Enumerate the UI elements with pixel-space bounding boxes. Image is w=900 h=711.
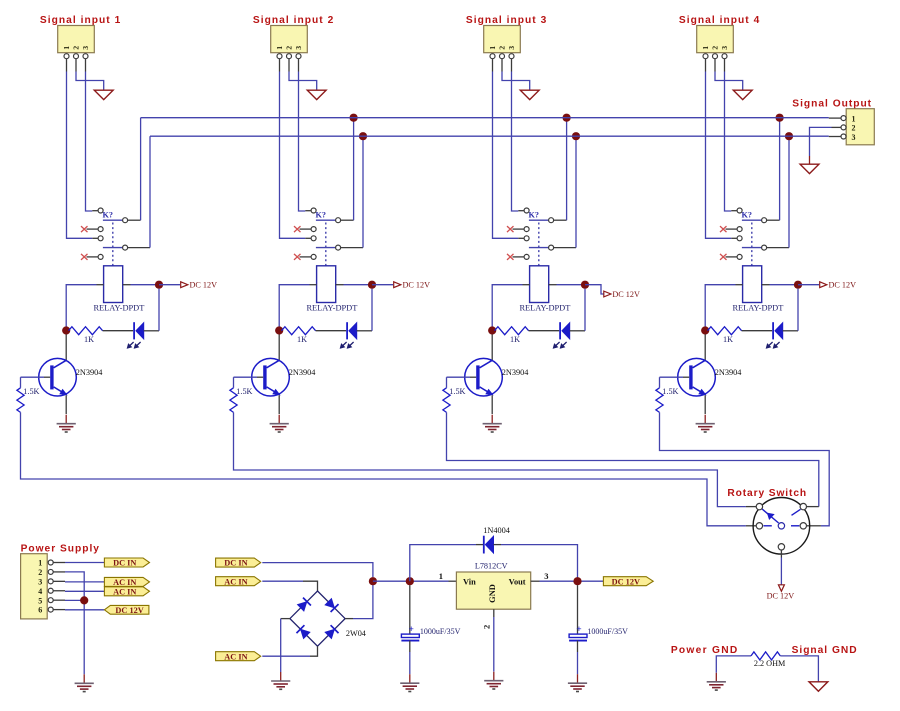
- wire coil right to DC 12V node: [762, 284, 798, 286]
- ground (emitter Q4): [704, 415, 706, 424]
- connector J5 pin circles: [841, 116, 846, 139]
- svg-text:2N3904: 2N3904: [76, 368, 104, 377]
- wire coil left to transistor collector node: [279, 285, 316, 331]
- wire resistor to signal gnd: [780, 656, 818, 682]
- svg-text:DC 12V: DC 12V: [190, 280, 218, 289]
- wire pin2 to ground rail: [65, 572, 84, 674]
- wire pin6 to DC 12V flag: [65, 609, 104, 611]
- wire J2 pin2 to signal ground: [289, 72, 317, 91]
- connector J6 (power supply): [21, 554, 48, 619]
- relay K3 pole A contact: [524, 208, 529, 213]
- wire output pin 2 to signal ground: [810, 127, 841, 164]
- wire J2 pin stubs: [280, 59, 299, 72]
- ground (emitter Q3): [491, 415, 493, 424]
- wire throw A to bus A riser: [554, 219, 567, 221]
- wire J3 pin2 to signal ground: [502, 72, 530, 91]
- ground (emitter Q1): [65, 415, 67, 424]
- relay K4 throw B arm: [742, 247, 762, 249]
- relay K3 throw A arm: [529, 219, 549, 221]
- wire collector (channel 4): [704, 334, 706, 360]
- relay K4 throw A arm: [742, 219, 762, 221]
- svg-text:GND: GND: [488, 584, 497, 603]
- wire J1 pin1 to relay pole B: [67, 72, 93, 239]
- capacitor C2 1000uF/35V: [569, 625, 587, 640]
- svg-text:1: 1: [439, 571, 443, 581]
- relay K2 throw A arm: [316, 219, 336, 221]
- svg-text:1K: 1K: [84, 335, 94, 344]
- resistor R2a 1K: [282, 327, 316, 344]
- ground (bridge minus): [280, 672, 282, 681]
- power flag DC 12V (channel 3): [585, 285, 640, 299]
- resistor R1a 1K: [69, 327, 103, 344]
- power flag DC 12V (channel 2): [372, 280, 430, 289]
- signal ground (output): [800, 164, 819, 173]
- resistor R4a 1K: [708, 327, 742, 344]
- rotary switch right contact: [800, 523, 806, 529]
- junction coil/DC12V/LED node (channel 2): [368, 281, 376, 289]
- svg-text:2: 2: [498, 46, 507, 50]
- connector J5 (signal output): [846, 109, 874, 145]
- svg-text:Vout: Vout: [509, 577, 526, 586]
- wire emitter to ground (channel 3): [491, 395, 493, 414]
- wire pin4 to AC IN flag: [65, 590, 104, 592]
- wire J4 pin2 to signal ground: [715, 72, 743, 91]
- svg-text:K?: K?: [529, 210, 539, 219]
- wire riser throw B to bus B (channel 1): [149, 136, 151, 247]
- ground (regulator): [493, 672, 495, 681]
- relay K1 pole A contact: [98, 208, 103, 213]
- wire 1K to LED cathode: [316, 330, 347, 332]
- wire 1K to LED cathode: [742, 330, 773, 332]
- svg-text:1N4004: 1N4004: [483, 526, 511, 535]
- relay K1 coil RELAY-DPDT: [104, 266, 123, 303]
- relay K3 coil RELAY-DPDT: [530, 266, 549, 303]
- wire throw B to bus B riser: [554, 247, 576, 249]
- relay K4 pole A contact: [737, 208, 742, 213]
- svg-text:1: 1: [275, 46, 284, 50]
- relay K4 throw B contact: [762, 245, 767, 250]
- wire J1 pin3 to relay pole A: [86, 72, 93, 212]
- svg-text:1.5K: 1.5K: [236, 387, 252, 396]
- svg-text:Rotary Switch: Rotary Switch: [727, 488, 807, 499]
- relay K2 unused contact NC1 with X: [294, 226, 316, 232]
- wire emitter to ground (channel 4): [704, 395, 706, 414]
- relay K2 coil RELAY-DPDT: [317, 266, 336, 303]
- relay K3 throw A contact: [549, 218, 554, 223]
- svg-text:1000uF/35V: 1000uF/35V: [587, 627, 628, 636]
- svg-text:Power GND: Power GND: [671, 645, 739, 656]
- svg-text:AC IN: AC IN: [113, 587, 136, 596]
- connector J2 (signal input 2): [271, 26, 308, 53]
- power flag DC 12V (channel 1): [159, 280, 217, 289]
- rotary switch SW1 body: [753, 498, 810, 555]
- diode D5 1N4004: [483, 536, 494, 554]
- wire J3 pin3 to relay pole A: [512, 72, 519, 212]
- rotary switch center contact: [778, 523, 784, 529]
- svg-text:3: 3: [507, 46, 516, 50]
- wire coil right to DC 12V node: [336, 284, 372, 286]
- svg-text:RELAY-DPDT: RELAY-DPDT: [519, 304, 570, 313]
- resistor R2b 1.5K: [230, 377, 253, 412]
- relay K2 throw B arm: [316, 247, 336, 249]
- junction base-resistor node (channel 4): [701, 326, 709, 334]
- net flag DC IN (pin1): [104, 558, 149, 567]
- connector J1 pin circles: [64, 54, 88, 59]
- wire bus B (output 3 net): [150, 135, 829, 137]
- rotary switch top-right contact: [800, 503, 806, 509]
- wire J3 pin stubs: [493, 59, 512, 72]
- svg-text:1K: 1K: [723, 335, 733, 344]
- transistor Q4 2N3904: [678, 358, 716, 396]
- wire bypass diode to Vout node: [494, 545, 578, 582]
- ground (power connector): [83, 674, 85, 683]
- svg-text:AC IN: AC IN: [224, 577, 247, 586]
- svg-text:3: 3: [544, 571, 548, 581]
- wire collector (channel 2): [278, 334, 280, 360]
- wire rotary common to DC 12V: [780, 550, 782, 585]
- connector J4 (signal input 4): [697, 26, 734, 53]
- svg-text:5: 5: [38, 596, 42, 605]
- relay K1 pole B contact: [98, 236, 103, 241]
- svg-text:K?: K?: [742, 210, 752, 219]
- svg-text:L7812CV: L7812CV: [475, 561, 508, 570]
- wire J1 pin2 to signal ground: [76, 72, 104, 91]
- junction bus B channel 2: [359, 132, 367, 140]
- junction base-resistor node (channel 2): [275, 326, 283, 334]
- junction bus B channel 4: [785, 132, 793, 140]
- wire J2 pin3 to relay pole A: [299, 72, 306, 212]
- relay K2 pole B contact: [311, 236, 316, 241]
- wire coil right to DC 12V node: [549, 284, 585, 286]
- LED D2: [340, 322, 357, 348]
- svg-text:2: 2: [711, 46, 720, 50]
- wire throw B to bus B riser: [767, 247, 789, 249]
- wire throw A to bus A riser: [341, 219, 354, 221]
- svg-text:1K: 1K: [297, 335, 307, 344]
- junction coil/DC12V/LED node (channel 4): [794, 281, 802, 289]
- svg-text:DC 12V: DC 12V: [829, 280, 857, 289]
- wire collector (channel 1): [65, 334, 67, 360]
- svg-text:Signal Output: Signal Output: [792, 98, 872, 109]
- rotary switch top-left contact: [756, 503, 762, 509]
- wire C1 to ground: [409, 641, 411, 675]
- svg-text:1: 1: [852, 114, 856, 123]
- resistor R3a 1K: [495, 327, 529, 344]
- junction base-resistor node (channel 1): [62, 326, 70, 334]
- wire Vin rail: [373, 580, 449, 582]
- junction pin5/ground rail: [80, 596, 88, 604]
- svg-text:K?: K?: [103, 210, 113, 219]
- net flag DC 12V (regulator output): [603, 577, 653, 586]
- svg-text:Signal input 3: Signal input 3: [466, 15, 548, 26]
- svg-text:DC 12V: DC 12V: [767, 592, 795, 601]
- svg-text:Signal input 4: Signal input 4: [679, 15, 761, 26]
- connector J4 pin circles: [703, 54, 727, 59]
- rotary switch wiper arm: [762, 509, 779, 523]
- rotary switch left contact: [756, 523, 762, 529]
- svg-text:AC IN: AC IN: [224, 652, 247, 661]
- junction bus B channel 3: [572, 132, 580, 140]
- transistor Q3 2N3904: [465, 358, 503, 396]
- rotary switch position stub top-right: [792, 509, 801, 515]
- wire C2 to ground: [577, 641, 579, 675]
- connector J3 pin circles: [490, 54, 514, 59]
- wire pin1 to DC IN flag: [65, 562, 104, 564]
- LED D1: [127, 322, 144, 348]
- relay K1 actuator dashed link: [112, 223, 114, 266]
- wire channel 2 base bus to rotary top-left contact: [234, 412, 746, 506]
- wire LED anode up to DC12V node: [783, 289, 798, 331]
- wire base (channel 3): [447, 376, 477, 378]
- ground (emitter Q2): [278, 415, 280, 424]
- wire power gnd to resistor: [716, 656, 751, 673]
- relay K4 actuator dashed link: [751, 223, 753, 266]
- wire bus A (output 1 net): [141, 117, 829, 119]
- svg-text:3: 3: [38, 577, 42, 586]
- wire Vin node up to bypass diode: [410, 545, 476, 582]
- junction Vin/C1 node: [406, 577, 414, 585]
- svg-text:3: 3: [852, 133, 856, 142]
- wire coil right to DC 12V node: [123, 284, 159, 286]
- ground (C1): [409, 674, 411, 683]
- wire AC IN to bridge AC1: [262, 581, 317, 591]
- wire throw A to bus A riser: [767, 219, 780, 221]
- resistor R3b 1.5K: [443, 377, 466, 412]
- wire throw A to bus A riser: [128, 219, 141, 221]
- net flag AC IN (bridge bottom): [216, 652, 261, 661]
- svg-text:2N3904: 2N3904: [502, 368, 530, 377]
- svg-text:+: +: [408, 625, 413, 635]
- relay K1 throw A contact: [123, 218, 128, 223]
- junction coil/DC12V/LED node (channel 1): [155, 281, 163, 289]
- junction Vout/C2 node: [573, 577, 581, 585]
- svg-text:DC 12V: DC 12V: [612, 577, 640, 586]
- signal ground (signal gnd): [809, 682, 828, 691]
- wire base (channel 4): [660, 376, 690, 378]
- regulator U1 L7812CV: [456, 572, 530, 609]
- wire riser throw A to bus A (channel 2): [353, 118, 355, 221]
- connector J6 pin circles: [48, 560, 53, 612]
- wire bus A to output pin 1: [829, 117, 841, 119]
- wire regulator GND pin to ground: [493, 609, 495, 671]
- resistor R4b 1.5K: [656, 377, 679, 412]
- svg-text:Power Supply: Power Supply: [21, 543, 100, 554]
- wire J4 pin stubs: [706, 59, 725, 72]
- svg-text:Signal input 2: Signal input 2: [253, 15, 335, 26]
- bridge diode D_TR: [324, 598, 338, 612]
- svg-text:1.5K: 1.5K: [662, 387, 678, 396]
- LED D3: [553, 322, 570, 348]
- svg-text:6: 6: [38, 606, 42, 615]
- net flag DC 12V (pin6): [104, 605, 148, 614]
- rotary switch position tick left: [764, 525, 772, 527]
- wire riser throw B to bus B (channel 2): [362, 136, 364, 247]
- relay K4 coil RELAY-DPDT: [743, 266, 762, 303]
- wire riser throw A to bus A (channel 3): [566, 118, 568, 221]
- wire channel 1 base bus to rotary left contact: [21, 412, 746, 525]
- relay K4 pole B contact: [737, 236, 742, 241]
- wire base (channel 2): [234, 376, 264, 378]
- svg-text:3: 3: [294, 46, 303, 50]
- wire J4 pin3 to relay pole A: [725, 72, 732, 212]
- svg-text:DC 12V: DC 12V: [612, 290, 640, 299]
- wire LED anode up to DC12V node: [357, 289, 372, 331]
- svg-text:1: 1: [62, 46, 71, 50]
- wire J3 pin1 to relay pole B: [493, 72, 519, 239]
- wire DC IN to Vin node: [262, 563, 373, 578]
- relay K3 unused contact NC2 with X: [507, 254, 529, 260]
- svg-text:DC 12V: DC 12V: [115, 606, 143, 615]
- ground (power gnd): [715, 673, 717, 682]
- svg-text:2W04: 2W04: [346, 629, 366, 638]
- svg-text:4: 4: [38, 587, 42, 596]
- relay K2 pole A contact: [311, 208, 316, 213]
- svg-text:1: 1: [488, 46, 497, 50]
- wire Vin node down to C1: [409, 585, 411, 634]
- bridge diode D_BL: [296, 625, 310, 639]
- connector J3 (signal input 3): [484, 26, 521, 53]
- relay K3 unused contact NC1 with X: [507, 226, 529, 232]
- relay K3 throw B contact: [549, 245, 554, 250]
- resistor R1b 1.5K: [17, 377, 40, 412]
- bridge diode D_BR: [324, 625, 338, 639]
- wire 1K to LED cathode: [529, 330, 560, 332]
- wire AC IN to bridge AC2: [262, 646, 317, 656]
- relay K2 actuator dashed link: [325, 223, 327, 266]
- relay K4 unused contact NC2 with X: [720, 254, 742, 260]
- wire riser throw A to bus A (channel 4): [779, 118, 781, 221]
- svg-text:+: +: [576, 625, 581, 635]
- svg-text:2N3904: 2N3904: [715, 368, 743, 377]
- relay K2 throw B contact: [336, 245, 341, 250]
- wire coil left to transistor collector node: [492, 285, 529, 331]
- net flag DC IN (to regulator): [216, 558, 261, 567]
- wire collector (channel 3): [491, 334, 493, 360]
- junction base-resistor node (channel 3): [488, 326, 496, 334]
- svg-text:DC IN: DC IN: [224, 559, 247, 568]
- wire bus B to output pin 3: [829, 136, 841, 138]
- svg-text:2: 2: [38, 568, 42, 577]
- relay K2 unused contact NC2 with X: [294, 254, 316, 260]
- relay K1 unused contact NC1 with X: [81, 226, 103, 232]
- svg-text:AC IN: AC IN: [113, 578, 136, 587]
- relay K1 unused contact NC2 with X: [81, 254, 103, 260]
- svg-text:1: 1: [701, 46, 710, 50]
- wire base (channel 1): [21, 376, 51, 378]
- wire J4 pin1 to relay pole B: [706, 72, 732, 239]
- rotary switch bottom contact: [778, 544, 784, 550]
- rotary switch position tick right: [791, 525, 799, 527]
- relay K1 throw B contact: [123, 245, 128, 250]
- wire throw B to bus B riser: [341, 247, 363, 249]
- wire J1 pin stubs: [67, 59, 86, 72]
- relay K3 actuator dashed link: [538, 223, 540, 266]
- svg-text:RELAY-DPDT: RELAY-DPDT: [93, 304, 144, 313]
- bridge diode D_TL: [297, 598, 311, 612]
- connector J1 (signal input 1): [58, 26, 95, 53]
- wire J2 pin1 to relay pole B: [280, 72, 306, 239]
- svg-text:DC 12V: DC 12V: [403, 280, 431, 289]
- wire bridge minus to ground: [281, 619, 290, 672]
- relay K3 pole B contact: [524, 236, 529, 241]
- wire riser throw A to bus A (channel 1): [140, 118, 142, 221]
- wire Vout to DC 12V flag: [531, 580, 604, 582]
- svg-text:2: 2: [285, 46, 294, 50]
- wire channel 3 base bus to rotary top-right contact: [447, 412, 819, 506]
- wire pin3 to AC IN flag: [65, 581, 104, 583]
- transistor Q1 2N3904: [39, 358, 77, 396]
- junction bus A channel 4: [776, 114, 784, 122]
- junction bus A channel 2: [350, 114, 358, 122]
- svg-text:2: 2: [72, 46, 81, 50]
- svg-text:RELAY-DPDT: RELAY-DPDT: [732, 304, 783, 313]
- power flag DC 12V (channel 4): [798, 280, 856, 289]
- LED D4: [766, 322, 783, 348]
- net flag AC IN (bridge top): [216, 577, 261, 586]
- wire emitter to ground (channel 2): [278, 395, 280, 414]
- relay K4 throw A contact: [762, 218, 767, 223]
- net flag AC IN (pin3): [104, 577, 149, 586]
- svg-text:RELAY-DPDT: RELAY-DPDT: [306, 304, 357, 313]
- ground (C2): [577, 674, 579, 683]
- relay K2 throw A contact: [336, 218, 341, 223]
- svg-text:1: 1: [38, 559, 42, 568]
- svg-text:Vin: Vin: [463, 577, 476, 586]
- wire 1K to LED cathode: [103, 330, 134, 332]
- wire Vout node down to C2: [577, 585, 579, 634]
- wire pin5 to ground rail: [65, 599, 84, 601]
- signal ground (input 2): [307, 90, 326, 99]
- power flag DC 12V (rotary common): [767, 585, 795, 601]
- svg-text:3: 3: [720, 46, 729, 50]
- junction bus A channel 3: [563, 114, 571, 122]
- svg-text:2.2 OHM: 2.2 OHM: [754, 659, 786, 668]
- svg-text:K?: K?: [316, 210, 326, 219]
- signal ground (input 4): [733, 90, 752, 99]
- wire LED anode up to DC12V node: [144, 289, 159, 331]
- net flag AC IN (pin4): [104, 587, 149, 596]
- wire emitter to ground (channel 1): [65, 395, 67, 414]
- svg-text:Signal input 1: Signal input 1: [40, 15, 122, 26]
- relay K1 throw A arm: [103, 219, 123, 221]
- svg-text:2N3904: 2N3904: [289, 368, 317, 377]
- wire coil left to transistor collector node: [705, 285, 742, 331]
- relay K1 throw B arm: [103, 247, 123, 249]
- svg-text:1000uF/35V: 1000uF/35V: [420, 627, 461, 636]
- svg-text:Signal GND: Signal GND: [792, 645, 858, 656]
- wire bridge plus to Vin node: [345, 581, 373, 618]
- signal ground (input 1): [94, 90, 113, 99]
- svg-text:1K: 1K: [510, 335, 520, 344]
- capacitor C1 1000uF/35V: [401, 625, 419, 640]
- svg-text:2: 2: [852, 124, 856, 133]
- svg-text:1.5K: 1.5K: [23, 387, 39, 396]
- relay K4 unused contact NC1 with X: [720, 226, 742, 232]
- svg-text:3: 3: [81, 46, 90, 50]
- transistor Q2 2N3904: [252, 358, 290, 396]
- wire throw B to bus B riser: [128, 247, 150, 249]
- svg-text:DC IN: DC IN: [113, 559, 136, 568]
- wire LED anode up to DC12V node: [570, 289, 585, 331]
- wire channel 4 base bus to rotary right contact: [660, 412, 830, 525]
- signal ground (input 3): [520, 90, 539, 99]
- svg-text:1.5K: 1.5K: [449, 387, 465, 396]
- connector J2 pin circles: [277, 54, 301, 59]
- wire coil left to transistor collector node: [66, 285, 103, 331]
- wire riser throw B to bus B (channel 4): [788, 136, 790, 247]
- junction coil/DC12V/LED node (channel 3): [581, 281, 589, 289]
- relay K3 throw B arm: [529, 247, 549, 249]
